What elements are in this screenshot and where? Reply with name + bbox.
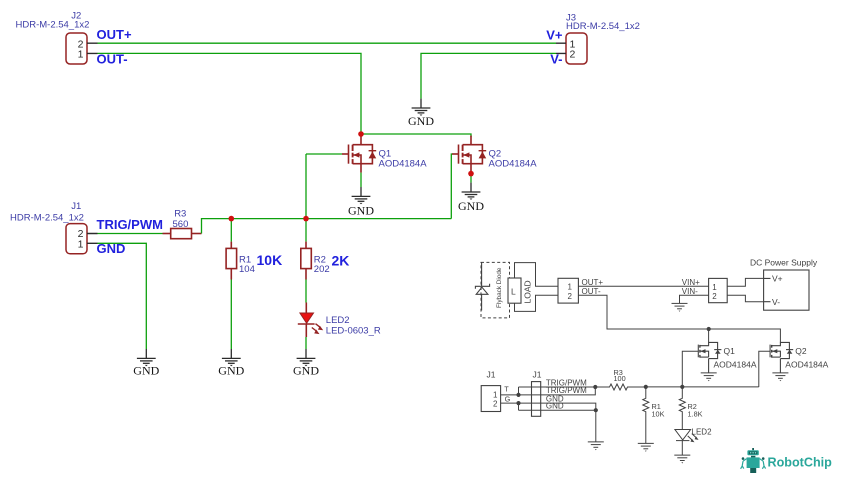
wire VIN- to ground (680, 295, 709, 303)
junction dot rail at R1 (229, 216, 235, 222)
svg-text:10K: 10K (652, 410, 665, 419)
wire Q2 gate riser from TRIG/PWM rail (450, 154, 453, 219)
connector J2 (66, 33, 98, 64)
svg-text:OUT+: OUT+ (97, 27, 132, 42)
svg-text:2: 2 (568, 292, 573, 301)
wire OUT+ to VIN+ (578, 285, 708, 287)
load inductor L box (508, 278, 521, 303)
inset transistor Q2 (770, 342, 793, 373)
wire Q1 gate from TRIG/PWM riser (306, 153, 342, 155)
inset connector VIN box (709, 278, 728, 302)
ground symbol inset bus (588, 442, 604, 450)
transistor Q1 AOD4184A (342, 136, 376, 173)
svg-text:HDR-M-2.54_1x2: HDR-M-2.54_1x2 (566, 21, 640, 32)
ground symbol inset LED (674, 455, 690, 463)
junction dot inset Q1 drain (707, 327, 711, 331)
ground symbol at Q1 source (352, 187, 371, 204)
svg-text:2: 2 (712, 292, 717, 301)
wire R2 down to LED2 (305, 280, 307, 303)
wire R3 riser and TRIG/PWM rail (202, 219, 452, 234)
svg-text:J1: J1 (487, 369, 496, 379)
svg-text:2K: 2K (332, 253, 350, 269)
junction dot rail at R2 and Q1 gate (303, 216, 309, 222)
svg-text:R3: R3 (174, 209, 186, 220)
wire drain rail from Q1 to Q2 (361, 134, 471, 137)
wire R1 to ground (230, 280, 232, 350)
flyback diode D (475, 262, 489, 310)
svg-text:104: 104 (239, 264, 255, 275)
svg-text:AOD4184A: AOD4184A (379, 158, 428, 169)
svg-text:Q2: Q2 (795, 346, 807, 356)
svg-text:V-: V- (772, 297, 780, 307)
junction dot bus gnd (594, 408, 598, 412)
inset connector OUT box (558, 278, 578, 303)
svg-text:LOAD: LOAD (523, 280, 533, 303)
wire inset Q1 drain (708, 329, 710, 342)
svg-text:L: L (511, 287, 516, 297)
resistor R1 inset 10K (643, 387, 649, 444)
junction dot T (516, 393, 520, 397)
resistor R3 inset 100 (595, 384, 646, 390)
svg-text:LED-0603_R: LED-0603_R (326, 325, 381, 336)
bus line TRIG/PWM 2 (501, 387, 596, 395)
svg-text:V+: V+ (772, 274, 783, 284)
junction dot bus rail (593, 385, 597, 389)
wire rail riser to Q1 gate and down to R2 (305, 154, 307, 242)
wire inset Q2 gate riser from rail end (759, 351, 770, 387)
svg-text:202: 202 (314, 264, 330, 275)
svg-text:1: 1 (493, 390, 498, 399)
inset TRIG rail to Q2 gate (646, 386, 759, 388)
wire VIN pin2 to supply V- (727, 295, 763, 301)
bus line GND 2 (519, 409, 596, 411)
wire Q1 source to ground (360, 173, 362, 187)
svg-text:AOD4184A: AOD4184A (489, 158, 538, 169)
svg-text:Q1: Q1 (724, 346, 736, 356)
wire load top to connector pin1 (515, 263, 559, 287)
wire load bottom to connector pin2 (515, 295, 559, 311)
wire G riser to bus line 4 (518, 403, 520, 410)
bus line TRIG/PWM 1 (519, 386, 596, 388)
ground symbol under R1 (222, 349, 241, 366)
junction dot G (516, 401, 520, 405)
wire Q2 source to ground (470, 172, 472, 183)
ground symbol at Q2 source (462, 183, 481, 200)
wire net V- from GND drop to J3 pin2 (421, 53, 556, 98)
svg-text:1: 1 (712, 283, 717, 292)
wire LED2 to ground (305, 337, 307, 349)
svg-text:GND: GND (293, 363, 319, 377)
svg-text:V+: V+ (546, 27, 563, 42)
svg-text:OUT-: OUT- (582, 287, 601, 296)
svg-text:HDR-M-2.54_1x2: HDR-M-2.54_1x2 (16, 20, 90, 31)
svg-text:RobotChip: RobotChip (768, 456, 833, 470)
flyback diode dashed enclosure (481, 262, 510, 318)
svg-text:100: 100 (614, 374, 626, 383)
RobotChip logo (741, 448, 833, 473)
junction dot at Q2 source (468, 171, 474, 177)
svg-text:GND: GND (348, 203, 374, 217)
wire rail down to R1 (230, 219, 232, 242)
svg-text:AOD4184A: AOD4184A (785, 360, 828, 370)
svg-text:GND: GND (408, 114, 434, 128)
bus line GND 1 (501, 403, 596, 410)
wire OUT- down and across to Q1 Q2 drains (578, 295, 780, 342)
svg-text:Flyback Diode: Flyback Diode (496, 267, 503, 308)
ground symbol inset under VIN- (672, 303, 688, 311)
ground symbol under J1 (137, 349, 156, 366)
DC power supply box (764, 270, 809, 310)
svg-text:AOD4184A: AOD4184A (714, 360, 757, 370)
connector J3 (556, 33, 587, 64)
wire net OUT- from J2 pin1 down to MOSFET drain rail (98, 53, 362, 134)
svg-text:1: 1 (78, 238, 84, 250)
transistor Q2 AOD4184A (452, 136, 486, 172)
svg-text:2: 2 (570, 48, 576, 60)
svg-text:V-: V- (550, 51, 562, 66)
wire TRIG/PWM from J1 pin2 to R3 (98, 233, 163, 235)
svg-text:J1: J1 (533, 369, 542, 379)
inset connector J1 tall box (532, 382, 541, 417)
svg-text:560: 560 (173, 219, 189, 230)
svg-text:VIN-: VIN- (682, 287, 698, 296)
svg-text:GND: GND (546, 402, 564, 411)
resistor R3 560 (163, 229, 202, 239)
svg-text:LED2: LED2 (692, 427, 713, 436)
inset transistor Q1 (698, 342, 721, 373)
wire bus gnd down (595, 410, 597, 442)
LED inset LED2 (675, 430, 699, 456)
ground symbol inset R1 (638, 443, 654, 451)
wire GND from J1 pin1 down to ground (98, 243, 147, 349)
wire inset Q1 gate riser (682, 351, 698, 387)
svg-text:1.8K: 1.8K (688, 410, 703, 419)
connector J1 (66, 224, 98, 254)
svg-text:J1: J1 (71, 201, 81, 212)
svg-text:DC Power Supply: DC Power Supply (750, 257, 818, 267)
svg-text:GND: GND (218, 363, 244, 377)
wire net OUT+ from J2 pin2 to J3 pin1 (98, 42, 557, 44)
ground symbol under LED2 (297, 349, 316, 366)
svg-text:T: T (504, 385, 509, 394)
junction dot inset R2 (680, 385, 684, 389)
svg-text:LED2: LED2 (326, 315, 350, 326)
svg-text:TRIG/PWM: TRIG/PWM (97, 217, 163, 232)
svg-text:G: G (505, 394, 511, 403)
junction dot at Q1 drain node (358, 131, 364, 137)
svg-text:HDR-M-2.54_1x2: HDR-M-2.54_1x2 (10, 213, 84, 224)
svg-text:10K: 10K (257, 252, 283, 268)
svg-text:2: 2 (493, 400, 498, 409)
wire T riser to bus line 1 (518, 387, 520, 395)
junction dot inset R1 (644, 385, 648, 389)
resistor R1 104 10K (226, 242, 237, 280)
ground symbol under V- wire (412, 99, 431, 116)
ground symbol inset Q1 source (701, 373, 717, 381)
svg-text:1: 1 (78, 48, 84, 60)
wire VIN pin1 to supply V+ (727, 278, 763, 286)
svg-text:GND: GND (458, 199, 484, 213)
resistor R2 202 2K (301, 242, 312, 280)
LED LED2 (298, 303, 323, 338)
inset connector J1 small box (481, 386, 500, 412)
ground symbol inset Q2 source (772, 373, 788, 381)
svg-text:GND: GND (133, 363, 159, 377)
svg-text:OUT-: OUT- (97, 51, 128, 66)
svg-text:1: 1 (568, 283, 573, 292)
resistor R2 inset 1.8K (679, 387, 685, 430)
